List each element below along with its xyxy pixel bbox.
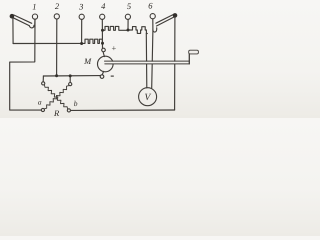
switch S1 blade (two parallel lines) — [14, 15, 32, 23]
voltmeter V body — [139, 88, 157, 106]
motor M body — [98, 56, 114, 72]
junction node 2/rheostat bus — [55, 74, 58, 77]
terminal 3 — [79, 14, 84, 19]
svg-text:R: R — [53, 108, 60, 118]
label minus — [111, 75, 114, 77]
crank arm — [188, 51, 190, 64]
switch S1 jaw hook under terminal 1 — [29, 25, 34, 28]
svg-text:V: V — [144, 93, 151, 103]
motor + brush — [102, 48, 106, 52]
junction rheostat bus right drop — [69, 74, 72, 77]
wire: voltmeter left lead — [145, 34, 148, 88]
wire: terminal 5 drop to junction — [127, 20, 129, 31]
svg-text:2: 2 — [55, 1, 60, 11]
resistor meander between nodes 4 and 5 — [103, 26, 128, 30]
motor shaft (white bar over wires) — [106, 62, 189, 64]
wire: + brush lead to motor body — [103, 52, 104, 57]
wire: terminal 2 drop to rheostat bus — [56, 19, 58, 76]
svg-text:3: 3 — [78, 1, 83, 11]
crank grip — [189, 50, 199, 54]
rheostat terminal top-left — [42, 82, 45, 85]
junction node 5/meander — [127, 29, 130, 32]
rheostat R zigzag top-left to b — [44, 85, 67, 109]
wire: top bus y=43.5 from corner to resistor — [13, 42, 84, 44]
switch S1 pivot dot — [10, 14, 15, 19]
switch S2 jaw hook under terminal 6 — [153, 28, 157, 32]
terminal 1 — [32, 14, 37, 19]
wire: right pivot down to bottom right corner — [174, 18, 176, 110]
svg-text:a: a — [38, 97, 42, 106]
terminal 1 stem — [34, 19, 36, 27]
rheostat terminal top-right — [69, 83, 72, 86]
wire: bus drop to rheostat top-right terminal — [69, 76, 71, 83]
switch S2 pivot dot — [173, 13, 178, 18]
wire: terminal 3 drop to bus junction — [81, 20, 83, 44]
wire: - brush lead to motor body — [102, 71, 103, 74]
junction node 4/bus — [101, 42, 104, 45]
svg-text:b: b — [74, 99, 78, 108]
terminal 2 — [54, 14, 59, 19]
junction node 3/bus — [80, 42, 83, 45]
wire: bus drop to rheostat top-left terminal — [42, 76, 44, 82]
motor - brush — [100, 75, 104, 79]
svg-text:4: 4 — [101, 1, 106, 11]
terminal 6 — [150, 14, 155, 19]
wire: left pivot down to top bus corner — [12, 18, 14, 43]
svg-text:6: 6 — [148, 1, 153, 11]
resistor meander between nodes 3 and 4 — [84, 39, 102, 43]
terminal 5 — [125, 14, 130, 19]
resistor meander node 5 to voltmeter wire — [128, 27, 147, 34]
wire: terminal 6 / voltmeter right lead — [152, 19, 153, 88]
rheostat terminal a — [41, 108, 44, 111]
rheostat R zigzag top-right to a — [44, 86, 69, 109]
wire: terminal 4 drop through junctions to + brush — [101, 20, 103, 49]
switch S2 blade (two parallel lines) — [156, 14, 174, 23]
junction node 4/meander — [101, 29, 104, 32]
wire: rheostat bus to motor minus brush — [43, 75, 100, 77]
wire: terminal 1 drop through bus to lower left frame — [10, 19, 42, 110]
svg-text:1: 1 — [32, 1, 36, 11]
svg-text:+: + — [112, 43, 117, 53]
terminal 4 — [100, 14, 105, 19]
rheostat terminal b — [67, 109, 70, 112]
svg-text:5: 5 — [127, 1, 131, 11]
svg-text:M: M — [83, 56, 92, 66]
wire: bottom right run to rheostat b — [71, 109, 175, 111]
